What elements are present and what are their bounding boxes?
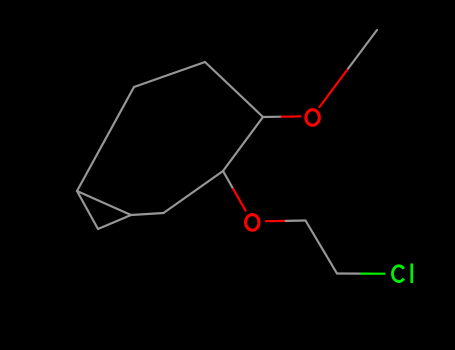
wire bond CH2-CH2 <box>306 221 338 274</box>
wire ring bond C2-C3 (long left) <box>77 87 134 191</box>
wire bond C6-O1 red half <box>282 115 301 117</box>
wire bond O1-CH3 gray half (methyl end) <box>348 30 377 69</box>
wire bond O1-CH3 red half <box>320 69 349 108</box>
wire bond O2-CH2 red half <box>266 220 286 223</box>
atom label O2 (chloroethoxy oxygen) <box>246 215 259 231</box>
wire bond CH2-Cl green half <box>361 273 385 275</box>
atom label Cl: letter C <box>393 266 404 282</box>
wire cyclopropane bond C3-C7 <box>77 191 131 215</box>
wire bond C5-O2 red half <box>233 189 245 211</box>
wire bond C5-O2 gray half <box>223 171 233 189</box>
wire cyclopropane bond C8-C7 <box>98 215 131 229</box>
wire bond CH2-Cl gray half <box>337 272 361 274</box>
wire ring bond C5-C4 (right to bottom) <box>164 171 224 213</box>
wire ring bond C6-C5 (top-right to right) <box>223 117 263 171</box>
wire bond O2-CH2 gray half <box>286 219 306 222</box>
wire cyclopropane bond C3-C8 <box>77 191 98 229</box>
wire ring bond C1-C6 (top to top-right) <box>205 62 263 117</box>
wire ring bond C1-C2 (top to top-left) <box>134 62 205 87</box>
wire bond C7-C4 <box>131 213 164 215</box>
wire bond C6-O1 gray half <box>263 116 282 119</box>
atom label O1 (methoxy oxygen) <box>306 110 319 126</box>
atom label Cl: letter l <box>410 264 413 284</box>
